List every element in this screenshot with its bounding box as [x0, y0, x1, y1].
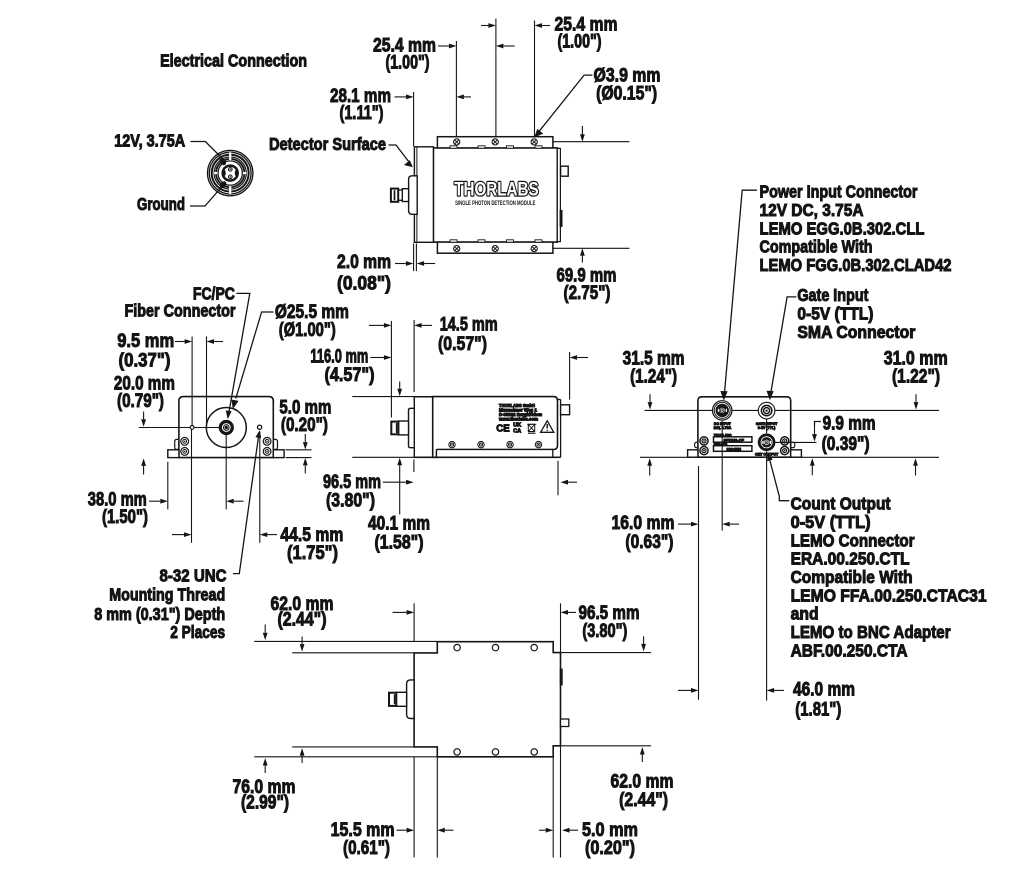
top view front plate — [414, 147, 433, 243]
front view corner screws — [181, 437, 189, 445]
svg-text:CNT OUTPUT: CNT OUTPUT — [755, 453, 779, 457]
arrow 116 left — [370, 357, 384, 359]
svg-text:(1.75"): (1.75") — [287, 542, 338, 564]
bottom view FC barrel — [396, 692, 406, 706]
svg-text:LEMO EGG.0B.302.CLL: LEMO EGG.0B.302.CLL — [760, 218, 925, 238]
svg-text:12V, 3.75A: 12V, 3.75A — [114, 131, 185, 151]
back view gate SMA connector — [758, 402, 775, 419]
svg-text:(0.37"): (0.37") — [119, 349, 171, 371]
arrow 28.1 left — [395, 96, 407, 98]
svg-text:(0.08"): (0.08") — [337, 273, 391, 295]
svg-text:Ground: Ground — [137, 194, 185, 214]
arrow 44.5 left — [172, 534, 184, 536]
top flange screw — [492, 139, 498, 145]
top view notch top — [478, 146, 485, 148]
arrow 96.5 left — [383, 481, 406, 483]
top view right dark slot — [560, 210, 563, 227]
ext line 96.5 right — [557, 461, 559, 496]
svg-text:8-32 UNC: 8-32 UNC — [160, 566, 227, 586]
back view label plate 2 — [714, 446, 752, 452]
side view bump — [409, 408, 415, 447]
back view centerline — [645, 409, 940, 411]
arrow 31.5 top — [649, 394, 651, 402]
svg-text:THORLABS: THORLABS — [454, 178, 538, 200]
arrow 40.1 top — [399, 382, 401, 389]
arrow 2.0 right — [424, 263, 435, 265]
arrow 46 right — [774, 689, 784, 691]
front view body — [179, 397, 273, 458]
arrow 9.9 down — [814, 426, 816, 434]
svg-text:Count Output: Count Output — [791, 494, 891, 514]
top view FC barrel — [402, 189, 408, 202]
leader FC/PC to connector — [229, 293, 250, 412]
ext line circle left edge — [206, 337, 208, 425]
arrow 31.0 bottom — [915, 466, 917, 476]
front view right foot — [273, 450, 284, 458]
bottom view FC tip — [389, 693, 396, 706]
side view base plate — [437, 450, 553, 458]
leader diameter 25.5 to circle — [236, 312, 274, 399]
svg-text:(3.80"): (3.80") — [582, 620, 627, 642]
arrow 20.0 bottom — [143, 466, 145, 475]
arrow 9.9 up — [811, 466, 813, 476]
ext line screw col 3 — [534, 21, 536, 137]
arrow 9.5 right — [214, 341, 223, 343]
svg-text:12V, 3.75A: 12V, 3.75A — [714, 426, 732, 430]
top view notch top — [450, 146, 457, 148]
9.9 dim line — [776, 441, 817, 443]
svg-text:LEMO FGG.0B.302.CLAD42: LEMO FGG.0B.302.CLAD42 — [760, 255, 952, 275]
svg-text:(0.61"): (0.61") — [343, 837, 390, 859]
svg-text:(1.58"): (1.58") — [375, 532, 424, 554]
ext bottom left col above — [413, 603, 415, 641]
ext line for 28.1 dim — [413, 92, 415, 146]
ext line 44.5 right — [259, 432, 261, 543]
svg-text:LEMO Connector: LEMO Connector — [791, 530, 915, 550]
svg-text:LEMO FFA.00.250.CTAC31: LEMO FFA.00.250.CTAC31 — [791, 585, 987, 605]
ext bottom 5.0 col below — [552, 757, 554, 858]
svg-text:(3.80"): (3.80") — [326, 490, 375, 512]
svg-text:46.0 mm: 46.0 mm — [793, 679, 855, 701]
back view right foot — [791, 450, 802, 457]
svg-text:(2.44"): (2.44") — [278, 609, 327, 631]
bottom view hole bottom — [492, 749, 498, 755]
arrow 96.5B left — [393, 611, 407, 613]
svg-text:www.thorlabs.com: www.thorlabs.com — [498, 417, 538, 422]
arrow 38 right — [234, 500, 244, 502]
front view small hole right — [258, 425, 262, 429]
svg-text:(0.63"): (0.63") — [625, 531, 673, 553]
arrow 14.5 left — [369, 324, 384, 326]
leader 8-32 UNC to hole — [233, 434, 259, 574]
arrow 46 left — [678, 689, 691, 691]
svg-text:8 mm (0.31") Depth: 8 mm (0.31") Depth — [94, 604, 225, 624]
arrow 69.9 bottom — [581, 256, 583, 263]
top view FC neck — [398, 190, 402, 200]
top view front plate inner line — [416, 148, 418, 242]
svg-text:0-5V (TTL): 0-5V (TTL) — [758, 426, 776, 430]
top view notch top — [535, 146, 542, 148]
top flange screw — [454, 139, 460, 145]
side view bottom line ext — [352, 456, 414, 458]
svg-text:Fiber Connector: Fiber Connector — [125, 301, 236, 321]
back view count output connector — [758, 434, 776, 452]
arrow 69.9 top — [581, 126, 583, 134]
arrow 25.4#1 right — [503, 45, 514, 47]
top flange screw — [531, 139, 537, 145]
LEMO power connector face (electrical connection detail) — [208, 150, 253, 195]
back view left foot — [688, 450, 698, 457]
ext line back left edge — [698, 466, 700, 700]
top view detector bump — [409, 176, 418, 215]
arrow 5.0 top — [304, 434, 306, 442]
svg-text:(0.20"): (0.20") — [585, 837, 635, 859]
svg-text:2 Places: 2 Places — [170, 622, 225, 642]
bottom view right tab — [561, 719, 569, 727]
arrow 31.5 bottom — [649, 466, 651, 476]
back view baseline — [640, 456, 939, 458]
bottom flange screw — [492, 246, 498, 252]
arrow 96.5 right — [568, 481, 577, 483]
back view body — [698, 397, 791, 457]
arrow 20.0 top — [143, 412, 145, 420]
top view body — [433, 148, 557, 242]
svg-text:SINGLE PHOTON DETECTION MODULE: SINGLE PHOTON DETECTION MODULE — [455, 200, 535, 207]
arrow 25.4#2 left — [481, 25, 488, 27]
arrow 16 right — [730, 523, 739, 525]
side view right tab — [561, 405, 570, 415]
5.0 dim line bottom — [286, 457, 312, 459]
bottom view bump — [407, 680, 415, 719]
side view screws — [449, 441, 455, 447]
leader from Ground label to connector pin — [190, 185, 223, 206]
front view small hole left — [190, 426, 194, 430]
bottom view dark slot — [560, 669, 563, 686]
leader power input — [724, 190, 757, 396]
top view notch bottom — [450, 240, 457, 242]
arrow 14.5 right — [422, 324, 432, 326]
THORLABS logo — [454, 178, 538, 200]
svg-text:(1.00"): (1.00") — [558, 31, 602, 53]
side view body — [433, 397, 558, 458]
arrow 40.1 bottom — [399, 465, 401, 474]
top view flange top — [437, 137, 553, 148]
side view bezel — [414, 397, 432, 458]
dim line 69.9 top — [553, 141, 630, 143]
arrow 96.5B right — [568, 611, 576, 613]
back view label plate 1 — [714, 437, 752, 442]
svg-text:(1.22"): (1.22") — [892, 366, 940, 388]
side view FC tip — [391, 422, 398, 435]
back view left ear — [695, 442, 699, 448]
ext line hole left col — [191, 337, 193, 426]
ext line screw col 2 — [495, 19, 497, 137]
arrow 116 right — [577, 357, 588, 359]
back view DC input connector — [712, 400, 733, 421]
svg-text:Detector Surface: Detector Surface — [269, 134, 386, 154]
top view flange bottom — [437, 242, 553, 253]
front view right ear — [273, 439, 278, 449]
bottom view outline — [414, 642, 560, 757]
bottom dim line body top ext — [292, 652, 414, 654]
arrow 38 left — [149, 500, 160, 502]
arrow 62L top — [301, 637, 303, 645]
arrow 5.0B right — [570, 829, 579, 831]
ext bottom left col below — [413, 757, 415, 858]
side view bottom edge — [414, 456, 560, 458]
bottom view hole bottom — [531, 749, 537, 755]
svg-text:0-5V (TTL): 0-5V (TTL) — [797, 303, 873, 323]
back view corner screws — [700, 437, 708, 445]
top view notch top — [507, 146, 514, 148]
ext bottom right col below — [560, 746, 562, 858]
svg-text:SER-NO:: SER-NO: — [714, 442, 727, 446]
ext 40.1 shaft — [399, 474, 401, 514]
svg-text:Mounting Thread: Mounting Thread — [109, 585, 225, 605]
arrow 5.0B left — [539, 829, 546, 831]
top view FC tip — [391, 189, 398, 202]
front view big circle — [206, 408, 246, 448]
svg-text:Power Input Connector: Power Input Connector — [760, 182, 918, 202]
arrow 28.1 right — [464, 96, 471, 98]
arrow 76 bottom — [264, 766, 266, 774]
front view FC face — [220, 422, 232, 434]
arrow 62R top — [643, 636, 645, 644]
arrow 76 top — [264, 625, 266, 633]
arrow 16 left — [678, 523, 691, 525]
arrow 15.5 left — [397, 829, 407, 831]
svg-text:12V DC, 3.75A: 12V DC, 3.75A — [760, 200, 864, 220]
svg-text:(0.57"): (0.57") — [438, 333, 487, 355]
svg-text:0-5V (TTL): 0-5V (TTL) — [791, 512, 871, 532]
svg-text:Electrical Connection: Electrical Connection — [160, 51, 307, 71]
ext line foot left — [167, 462, 169, 510]
ext bottom 15.5 col below — [436, 757, 438, 858]
5.0 dim line top — [286, 449, 312, 451]
front view centerline — [139, 427, 221, 429]
ext line 116 left — [390, 321, 392, 418]
center vertical ext — [225, 433, 227, 509]
svg-text:(2.99"): (2.99") — [241, 792, 289, 814]
ext line count center — [766, 419, 768, 433]
svg-text:(2.75"): (2.75") — [564, 282, 611, 304]
svg-text:Compatible With: Compatible With — [791, 567, 913, 587]
bottom dim line flange bottom ext — [254, 756, 437, 758]
bottom view hole top — [492, 644, 498, 650]
top view notch bottom — [507, 240, 514, 242]
arrow 62R bottom — [641, 755, 643, 763]
arrow 9.5 left — [175, 341, 185, 343]
arrow 2.0 left — [395, 263, 406, 265]
svg-text:(Ø1.00"): (Ø1.00") — [279, 319, 336, 341]
dim line 69.9 bottom — [553, 247, 630, 249]
top view right double edge — [557, 148, 560, 241]
svg-text:(Ø0.15"): (Ø0.15") — [596, 83, 657, 105]
ext line 116 right — [569, 352, 571, 400]
svg-text:2.0 mm: 2.0 mm — [337, 251, 391, 273]
bottom flange screw — [531, 246, 537, 252]
bottom flange screw — [454, 246, 460, 252]
svg-text:12345M: 12345M — [726, 446, 741, 451]
svg-text:(1.24"): (1.24") — [630, 366, 677, 388]
svg-text:(0.39"): (0.39") — [822, 433, 870, 455]
svg-text:(0.20"): (0.20") — [281, 414, 328, 436]
svg-text:LEMO to BNC Adapter: LEMO to BNC Adapter — [791, 622, 951, 642]
leader from 12V label to connector pin — [191, 142, 226, 162]
top view notch bottom — [535, 240, 542, 242]
svg-text:THORLABS: THORLABS — [714, 433, 732, 437]
top view right tab — [561, 166, 569, 176]
leader diameter 3.9 to screw — [539, 75, 592, 131]
svg-text:(1.11"): (1.11") — [340, 102, 384, 124]
svg-text:9.9 mm: 9.9 mm — [823, 412, 876, 434]
svg-text:CA: CA — [513, 428, 521, 434]
side view right outer edge — [560, 400, 562, 458]
arrow 25.4#2 right — [542, 25, 550, 27]
svg-text:ERA.00.250.CTL: ERA.00.250.CTL — [791, 549, 910, 569]
bottom view hole top — [454, 644, 460, 650]
front view left ear — [175, 439, 180, 449]
front view left foot — [168, 450, 179, 458]
svg-text:and: and — [791, 604, 819, 624]
bottom view hole top — [531, 644, 537, 650]
svg-text:(4.57"): (4.57") — [325, 364, 375, 386]
svg-text:ABF.00.250.CTA: ABF.00.250.CTA — [791, 641, 908, 661]
svg-text:(1.50"): (1.50") — [102, 506, 148, 528]
ext bottom right col above — [560, 603, 562, 652]
leader gate input — [770, 297, 796, 396]
9.9 leader tick — [815, 422, 821, 427]
bottom dim line right top ext — [561, 652, 652, 654]
arrow 62L bottom — [301, 756, 303, 763]
bottom dim line right bottom ext — [561, 745, 652, 747]
ext line power center — [721, 421, 723, 531]
bottom dim line body bottom ext — [292, 746, 414, 748]
side view top line ext — [352, 396, 432, 398]
svg-text:CE: CE — [496, 422, 510, 434]
ext line screw col 1 — [455, 41, 457, 137]
bottom dim line flange top ext — [254, 640, 437, 642]
arrow 44.5 right — [267, 534, 277, 536]
svg-text:(1.00"): (1.00") — [386, 52, 430, 74]
ext line 96.5 left dash — [413, 460, 415, 473]
ext line 14.5 right — [413, 320, 415, 392]
top view notch bottom — [478, 240, 485, 242]
ext lines 2.0 dim — [413, 244, 415, 272]
ext line 44.5 left — [191, 430, 193, 543]
svg-text:Compatible With: Compatible With — [760, 237, 873, 257]
leader count output — [770, 461, 779, 497]
arrow 31.0 top — [915, 394, 917, 402]
arrow 15.5 right — [445, 829, 454, 831]
svg-text:Gate Input: Gate Input — [797, 285, 868, 305]
svg-text:(1.81"): (1.81") — [795, 699, 841, 721]
side view FC barrel — [398, 421, 408, 435]
svg-text:(0.79"): (0.79") — [117, 390, 164, 412]
arrow 25.4#1 left — [438, 45, 449, 47]
svg-text:SMA Connector: SMA Connector — [797, 322, 915, 342]
arrow 5.0 bottom — [304, 465, 306, 473]
svg-text:(2.44"): (2.44") — [619, 789, 668, 811]
back view right ear — [790, 442, 794, 448]
bottom view hole bottom — [454, 749, 460, 755]
leader Detector Surface — [389, 145, 409, 162]
